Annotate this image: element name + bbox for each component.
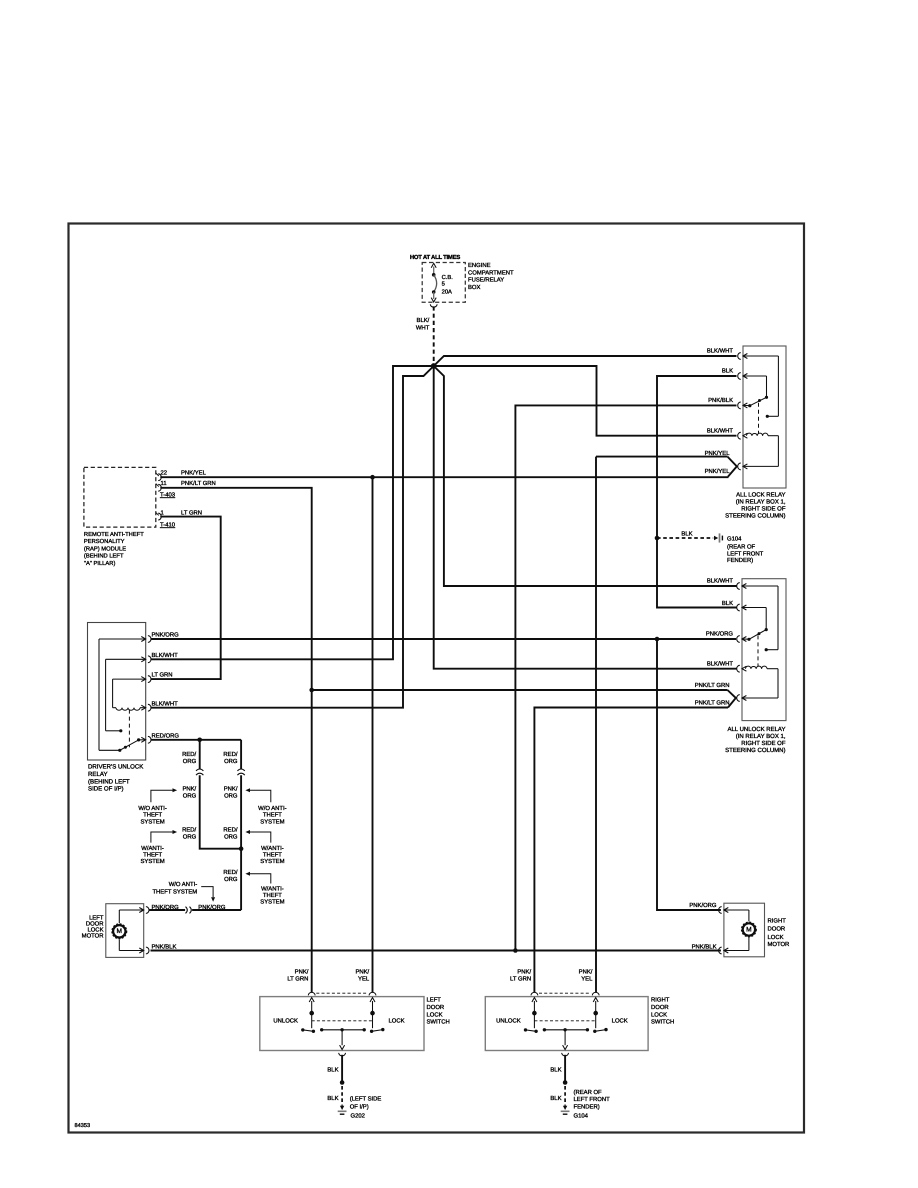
svg-text:BLK/WHT: BLK/WHT	[707, 428, 734, 435]
svg-text:W/ANTI-: W/ANTI-	[141, 845, 164, 852]
node BLK splice (right)	[563, 1080, 568, 1085]
svg-text:SIDE OF I/P): SIDE OF I/P)	[88, 786, 124, 793]
svg-text:SYSTEM: SYSTEM	[140, 858, 164, 865]
svg-text:PNK/: PNK/	[517, 969, 531, 976]
wire PNK/ORG to option network	[192, 904, 241, 911]
svg-text:(IN RELAY BOX 1,: (IN RELAY BOX 1,	[736, 499, 786, 506]
label BLK/WHT	[416, 317, 430, 332]
label BLK/WHT (unlock pin1)	[707, 578, 734, 585]
svg-text:(BEHIND LEFT: (BEHIND LEFT	[88, 778, 130, 785]
svg-text:RED/: RED/	[223, 869, 237, 876]
svg-text:RED/: RED/	[223, 827, 237, 834]
svg-text:BLK: BLK	[327, 1067, 338, 1074]
label HOT AT ALL TIMES	[410, 254, 460, 261]
option note W/ANTI-THEFT SYSTEM (right middle)	[245, 830, 284, 865]
svg-text:W/ANTI-: W/ANTI-	[261, 886, 284, 893]
svg-text:W/O ANTI-: W/O ANTI-	[258, 805, 287, 812]
label G104 location	[727, 536, 764, 564]
svg-text:DOOR: DOOR	[651, 1004, 669, 1011]
wire PNK/LT GRN from RAP pin 11	[160, 480, 311, 993]
svg-text:OF I/P): OF I/P)	[350, 1103, 369, 1110]
right door lock motor pins	[719, 907, 729, 954]
wire BLK below right switch	[550, 1055, 565, 1083]
svg-text:THEFT: THEFT	[263, 892, 282, 899]
svg-text:G202: G202	[351, 1112, 365, 1119]
svg-text:ALL LOCK RELAY: ALL LOCK RELAY	[736, 492, 785, 499]
wire right branch lower	[240, 775, 242, 910]
svg-text:RELAY: RELAY	[88, 771, 108, 778]
svg-text:G104: G104	[574, 1113, 589, 1120]
option note W/ANTI-THEFT SYSTEM (left lower)	[140, 830, 177, 865]
left door lock motor pins	[139, 907, 149, 954]
svg-text:RED/: RED/	[223, 751, 237, 758]
svg-text:LT GRN: LT GRN	[181, 509, 202, 516]
right door lock switch label	[651, 997, 674, 1026]
label BLK/WHT (unlock pin4)	[707, 661, 734, 668]
label G104 location (bottom)	[574, 1089, 611, 1120]
svg-text:RED/: RED/	[182, 827, 196, 834]
svg-text:LOCK: LOCK	[768, 934, 784, 941]
left door lock motor label	[82, 914, 104, 939]
diagram id 84353	[75, 1123, 91, 1129]
labels PNK/LT GRN and PNK/YEL (left switch)	[287, 969, 370, 983]
inline connector (left motor PNK/ORG)	[186, 907, 192, 914]
label PNK/ORG (driver pin1)	[152, 632, 180, 639]
svg-text:PNK/BLK: PNK/BLK	[708, 397, 733, 404]
svg-text:"A" PILLAR): "A" PILLAR)	[84, 560, 116, 567]
svg-text:ENGINE: ENGINE	[468, 262, 491, 269]
wire left branch lower	[200, 775, 241, 848]
driver's unlock relay label	[88, 764, 143, 793]
svg-text:RIGHT SIDE OF: RIGHT SIDE OF	[741, 740, 786, 747]
wire junction down to all unlock relay pin 4 BLK/WHT	[434, 366, 737, 669]
left door lock motor internal wiring	[119, 910, 143, 951]
svg-text:BLK/WHT: BLK/WHT	[152, 652, 179, 659]
svg-text:T-410: T-410	[160, 521, 176, 528]
label RED/ORG (driver pin5)	[152, 732, 180, 739]
svg-text:PNK/LT GRN: PNK/LT GRN	[695, 682, 730, 689]
wire BLK below left switch	[327, 1055, 342, 1083]
svg-text:UNLOCK: UNLOCK	[273, 1018, 298, 1025]
svg-text:5: 5	[442, 281, 445, 287]
svg-text:PERSONALITY: PERSONALITY	[84, 538, 125, 545]
svg-text:PNK/BLK: PNK/BLK	[152, 943, 177, 950]
svg-text:THEFT: THEFT	[143, 811, 162, 818]
svg-text:PNK/: PNK/	[295, 969, 309, 976]
svg-text:84353: 84353	[75, 1123, 91, 1129]
svg-text:LOCK: LOCK	[612, 1018, 628, 1025]
svg-text:SYSTEM: SYSTEM	[260, 818, 284, 825]
inline connector (right RED/ORG)	[237, 769, 244, 775]
node branches rejoin	[239, 846, 244, 851]
svg-text:C.B.: C.B.	[442, 274, 454, 281]
driver's unlock relay pins	[141, 636, 151, 744]
svg-text:PNK/: PNK/	[355, 969, 369, 976]
node power junction	[431, 363, 437, 369]
svg-text:BLK/WHT: BLK/WHT	[707, 578, 734, 585]
svg-text:(BEHIND LEFT: (BEHIND LEFT	[84, 553, 124, 560]
svg-text:BLK/WHT: BLK/WHT	[152, 700, 179, 707]
ground G202 (left side of I/P)	[338, 1106, 347, 1114]
svg-text:PNK/YEL: PNK/YEL	[705, 468, 731, 475]
svg-text:BLK: BLK	[327, 1095, 338, 1102]
svg-text:LEFT: LEFT	[89, 914, 104, 921]
svg-text:STEERING COLUMN): STEERING COLUMN)	[725, 513, 785, 520]
label PNK/BLK right motor pin2	[692, 943, 717, 950]
wire RED/ORG right branch down	[240, 740, 242, 769]
wire PNK/ORG driver relay pin1 to all unlock pin 3	[151, 638, 737, 640]
svg-text:THEFT SYSTEM: THEFT SYSTEM	[152, 888, 197, 895]
svg-text:FENDER): FENDER)	[727, 557, 753, 564]
labels RED/ORG left column	[182, 751, 196, 841]
svg-text:LOCK: LOCK	[651, 1011, 667, 1018]
motor M1 (left)	[112, 924, 127, 939]
svg-text:THEFT: THEFT	[263, 852, 282, 859]
label C.B. 5 20A	[442, 274, 454, 296]
wire PNK/LT GRN merge into all unlock relay pin 5	[695, 682, 736, 708]
svg-text:FUSE/RELAY: FUSE/RELAY	[468, 277, 504, 284]
svg-text:FENDER): FENDER)	[574, 1104, 600, 1111]
wire RED/ORG left branch down	[199, 740, 201, 769]
svg-text:WHT: WHT	[416, 325, 430, 332]
wire PNK/LT GRN from right switch to all unlock pin 5 bottom	[534, 708, 728, 993]
svg-text:LOCK: LOCK	[388, 1018, 404, 1025]
svg-text:ORG: ORG	[224, 792, 238, 799]
svg-text:11: 11	[161, 480, 167, 487]
wire junction to all lock relay pin 1 BLK/WHT	[434, 356, 737, 366]
svg-text:(IN RELAY BOX 1,: (IN RELAY BOX 1,	[736, 733, 786, 740]
svg-text:PNK/: PNK/	[224, 785, 238, 792]
option note W/O ANTI-THEFT SYSTEM (bottom middle)	[152, 881, 215, 902]
option note W/ANTI-THEFT SYSTEM (right lower)	[245, 872, 284, 906]
node RED/ORG branch	[197, 738, 202, 743]
svg-text:PNK/: PNK/	[182, 785, 196, 792]
svg-text:BLK: BLK	[722, 600, 733, 607]
node BLK splice (left)	[340, 1080, 345, 1085]
svg-text:RIGHT: RIGHT	[651, 997, 670, 1004]
label G202 location	[350, 1096, 382, 1120]
wire PNK/LT GRN branch to all unlock pin 5 top	[312, 689, 728, 691]
svg-text:DOOR: DOOR	[768, 926, 786, 933]
svg-text:RED/: RED/	[182, 751, 196, 758]
diagram border frame	[69, 224, 805, 1133]
wire junction to all unlock relay pin 1 BLK/WHT	[434, 366, 737, 586]
wire BLK dashed to G104	[550, 1086, 565, 1106]
svg-text:T-403: T-403	[160, 491, 176, 498]
left door lock switch label	[427, 997, 450, 1026]
svg-text:PNK/ORG: PNK/ORG	[198, 904, 226, 911]
svg-text:MOTOR: MOTOR	[768, 941, 790, 948]
node PNK/LT GRN branch	[309, 688, 314, 693]
label BLK/WHT (driver pin4)	[152, 700, 179, 707]
svg-text:ORG: ORG	[183, 792, 197, 799]
all lock relay box	[743, 346, 786, 488]
wire PNK/YEL top from right switch column	[596, 456, 728, 458]
svg-text:SWITCH: SWITCH	[651, 1019, 674, 1026]
svg-text:PNK/ORG: PNK/ORG	[152, 632, 180, 639]
right door lock motor internal wiring	[724, 910, 749, 951]
wire BLK dashed to G104	[657, 531, 713, 538]
svg-text:PNK/: PNK/	[579, 969, 593, 976]
svg-text:SYSTEM: SYSTEM	[260, 858, 284, 865]
svg-text:PNK/YEL: PNK/YEL	[181, 469, 207, 476]
left door lock switch	[260, 992, 424, 1055]
wire junction to driver's unlock relay pin 4 BLK/WHT	[151, 366, 434, 708]
svg-text:LEFT FRONT: LEFT FRONT	[727, 550, 764, 557]
svg-text:M: M	[117, 928, 123, 935]
svg-text:(REAR OF: (REAR OF	[574, 1089, 603, 1096]
svg-text:HOT AT ALL TIMES: HOT AT ALL TIMES	[410, 254, 460, 261]
node PNK/BLK junction	[513, 948, 518, 953]
svg-text:(RAP) MODULE: (RAP) MODULE	[84, 545, 126, 552]
label BLK/WHT (lock pin4)	[707, 428, 734, 435]
svg-text:W/O ANTI-: W/O ANTI-	[138, 805, 167, 812]
node PNK/ORG branch to right motor	[655, 637, 660, 642]
label T-403	[160, 491, 176, 498]
RAP pin 1	[156, 509, 164, 520]
svg-text:PNK/ORG: PNK/ORG	[706, 631, 734, 638]
svg-text:RIGHT: RIGHT	[768, 918, 787, 925]
driver's unlock relay box	[88, 623, 146, 761]
svg-text:BLK/WHT: BLK/WHT	[707, 348, 734, 355]
all lock relay pins	[738, 353, 748, 470]
svg-text:MOTOR: MOTOR	[82, 932, 104, 939]
svg-text:ORG: ORG	[224, 834, 238, 841]
RAP module box (dashed)	[84, 467, 156, 527]
svg-text:ORG: ORG	[183, 834, 197, 841]
svg-text:(REAR OF: (REAR OF	[727, 544, 756, 551]
wire BLK/WHT fused feed (dashed)	[433, 306, 435, 362]
label BLK (unlock pin2)	[722, 600, 733, 607]
wire PNK/BLK all lock relay pin 3 down	[515, 405, 736, 950]
label PNK/BLK (lock pin3)	[708, 397, 733, 404]
wire junction right arm to all lock relay pin 4 BLK/WHT	[434, 366, 737, 436]
all lock relay label	[725, 492, 786, 520]
svg-text:RED/ORG: RED/ORG	[152, 732, 180, 739]
wire RED/ORG from driver relay pin5	[151, 739, 242, 741]
wire PNK/YEL down to left door lock switch	[372, 477, 374, 992]
right door lock switch	[485, 992, 648, 1056]
svg-text:BLK/WHT: BLK/WHT	[707, 661, 734, 668]
label T-410	[160, 521, 176, 528]
svg-text:LT GRN: LT GRN	[152, 672, 173, 679]
svg-text:(LEFT SIDE: (LEFT SIDE	[350, 1096, 382, 1103]
svg-text:DOOR: DOOR	[86, 920, 104, 927]
label BLK/WHT (lock pin1)	[707, 348, 734, 355]
wire PNK/ORG left motor pin1	[149, 904, 186, 911]
svg-text:THEFT: THEFT	[263, 811, 282, 818]
labels PNK/LT GRN and PNK/YEL (right switch)	[510, 969, 593, 983]
svg-text:W/ANTI-: W/ANTI-	[261, 845, 284, 852]
svg-text:LT GRN: LT GRN	[510, 976, 531, 983]
svg-text:20A: 20A	[442, 288, 452, 295]
wire PNK/ORG down to right door lock motor	[657, 639, 721, 910]
svg-text:BLK: BLK	[722, 368, 733, 375]
svg-text:BOX: BOX	[468, 284, 481, 291]
svg-text:LEFT FRONT: LEFT FRONT	[574, 1096, 611, 1103]
svg-text:LOCK: LOCK	[87, 926, 103, 933]
label ENGINE COMPARTMENT FUSE/RELAY BOX	[468, 262, 514, 291]
engine compartment fuse/relay box (dashed)	[422, 263, 465, 303]
label BLK/WHT (driver pin2)	[152, 652, 179, 659]
label LT GRN (driver pin3)	[152, 672, 173, 679]
svg-text:G104: G104	[727, 536, 742, 543]
option note W/O ANTI-THEFT SYSTEM (left upper)	[138, 788, 177, 825]
svg-text:SYSTEM: SYSTEM	[260, 899, 284, 906]
svg-text:ORG: ORG	[224, 758, 238, 765]
wire LT GRN from RAP pin 1	[151, 509, 221, 679]
wire PNK/YEL vertical to right door lock switch	[595, 457, 597, 993]
svg-text:COMPARTMENT: COMPARTMENT	[468, 269, 514, 276]
wire PNK/YEL merge into all lock relay pin 5	[705, 450, 737, 477]
svg-text:ORG: ORG	[224, 876, 238, 883]
fuse box output pin	[430, 304, 437, 307]
svg-text:PNK/ORG: PNK/ORG	[689, 902, 717, 909]
node BLK to G104 branch	[655, 536, 660, 541]
svg-text:DOOR: DOOR	[427, 1004, 445, 1011]
driver's unlock relay internal contacts and coil	[99, 639, 146, 752]
ground G104 (rear of left front fender)	[561, 1106, 570, 1114]
option note W/O ANTI-THEFT SYSTEM (right upper)	[245, 788, 286, 825]
left door lock motor box	[106, 904, 144, 958]
svg-text:LEFT: LEFT	[427, 997, 442, 1004]
svg-text:BLK: BLK	[681, 531, 692, 538]
svg-text:LOCK: LOCK	[427, 1011, 443, 1018]
svg-text:RIGHT SIDE OF: RIGHT SIDE OF	[741, 506, 786, 513]
all unlock relay box	[742, 579, 786, 721]
svg-text:BLK/: BLK/	[417, 317, 430, 324]
wire PNK/YEL from RAP pin 22	[160, 469, 728, 477]
svg-text:YEL: YEL	[358, 976, 370, 983]
wire PNK/BLK between door motors	[151, 950, 721, 952]
all unlock relay internal contacts and coil	[742, 586, 778, 698]
svg-text:BLK: BLK	[550, 1095, 561, 1102]
labels RED/ORG right column	[223, 751, 237, 883]
wire BLK all lock relay pin 2	[657, 376, 737, 608]
motor M2 (right)	[742, 922, 757, 937]
svg-text:1: 1	[161, 509, 164, 516]
svg-text:PNK/BLK: PNK/BLK	[692, 943, 717, 950]
svg-text:UNLOCK: UNLOCK	[496, 1018, 521, 1025]
all lock relay internal contacts and coil	[743, 356, 778, 466]
label BLK (lock pin2)	[722, 368, 733, 375]
svg-text:ALL UNLOCK RELAY: ALL UNLOCK RELAY	[727, 726, 785, 733]
svg-text:22: 22	[161, 469, 168, 476]
svg-text:THEFT: THEFT	[143, 852, 162, 859]
svg-text:PNK/LT GRN: PNK/LT GRN	[181, 480, 216, 487]
svg-text:SYSTEM: SYSTEM	[140, 818, 164, 825]
svg-text:BLK: BLK	[550, 1067, 561, 1074]
svg-text:M: M	[746, 926, 752, 933]
svg-text:STEERING COLUMN): STEERING COLUMN)	[725, 747, 785, 754]
RAP pin 22	[156, 469, 167, 480]
RAP pin 11	[156, 480, 167, 491]
svg-text:ORG: ORG	[183, 758, 197, 765]
svg-text:PNK/ORG: PNK/ORG	[152, 904, 180, 911]
svg-text:DRIVER'S UNLOCK: DRIVER'S UNLOCK	[88, 764, 143, 771]
circuit breaker C.B. 5 20A	[431, 263, 436, 302]
label PNK/BLK left motor pin2	[152, 943, 177, 950]
ground G104 (rear of left front fender)	[714, 533, 722, 542]
wire junction left arm to driver's unlock relay pin 2 BLK/WHT	[151, 366, 434, 659]
right door lock motor label	[768, 918, 790, 949]
svg-text:W/O ANTI-: W/O ANTI-	[169, 881, 198, 888]
right door lock motor box	[724, 903, 765, 957]
svg-text:REMOTE ANTI-THEFT: REMOTE ANTI-THEFT	[84, 531, 144, 538]
all unlock relay pins	[737, 583, 747, 702]
svg-text:SWITCH: SWITCH	[427, 1019, 450, 1026]
inline connector (left RED/ORG)	[196, 769, 203, 775]
svg-text:YEL: YEL	[581, 976, 593, 983]
svg-text:PNK/LT GRN: PNK/LT GRN	[695, 700, 730, 707]
label PNK/ORG right motor pin1	[689, 902, 717, 909]
all unlock relay label	[725, 726, 786, 754]
svg-text:LT GRN: LT GRN	[287, 976, 308, 983]
wire BLK dashed to G202	[327, 1086, 342, 1106]
node PNK/YEL branch	[370, 475, 375, 480]
RAP module label	[84, 531, 144, 567]
label PNK/ORG (unlock pin3)	[706, 631, 734, 638]
